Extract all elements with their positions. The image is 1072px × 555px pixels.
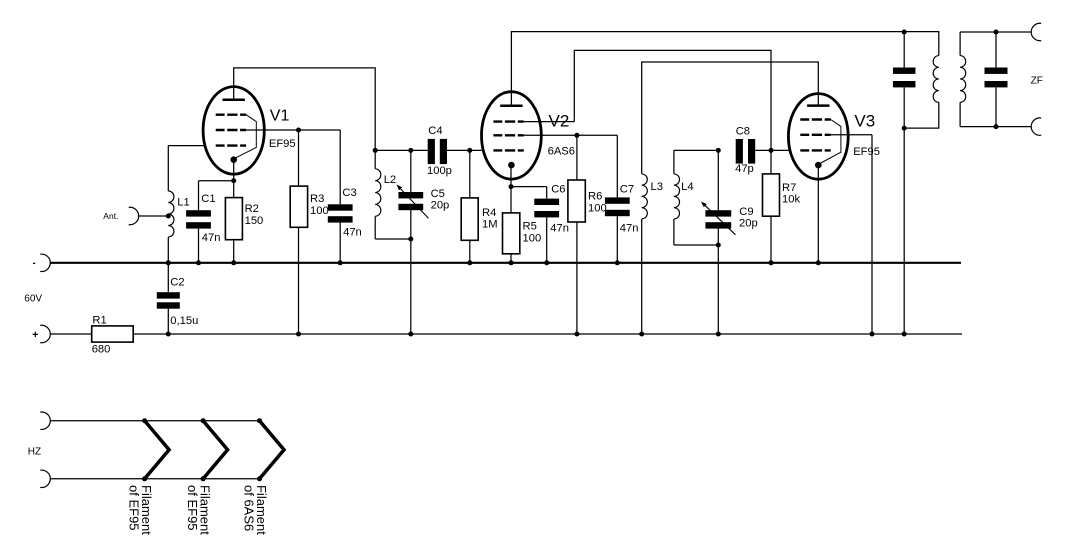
capacitor C4 — [428, 139, 447, 164]
wire R7 top lead — [770, 150, 772, 174]
wire C1 top lead — [198, 181, 200, 211]
capacitor C8 — [736, 139, 756, 164]
wire L4 top lead — [673, 150, 675, 174]
junction C9/C8 top — [716, 148, 721, 153]
junction V2 cathode node — [509, 184, 514, 189]
svg-text:HZ: HZ — [28, 447, 41, 458]
svg-text:100: 100 — [523, 233, 542, 245]
svg-text:V2: V2 — [549, 111, 570, 130]
junction L3 - supply bus — [639, 332, 644, 337]
junction C3 - bus — [338, 260, 343, 265]
wire R4 top lead — [469, 150, 471, 198]
filament heater chevron 3 — [260, 421, 285, 479]
wire L2 top lead — [374, 150, 376, 168]
junction filament 3 top — [257, 418, 262, 423]
wire C7 bottom lead — [616, 216, 618, 263]
wire L2 bottom to C5 — [375, 238, 411, 240]
svg-text:47n: 47n — [550, 222, 569, 234]
svg-text:C6: C6 — [551, 184, 565, 196]
wire L3 to supply bus — [641, 219, 643, 334]
wire V3 cathode to bus — [817, 165, 819, 263]
svg-text:C2: C2 — [170, 277, 184, 289]
svg-text:20p: 20p — [739, 218, 758, 230]
inductor L3 — [642, 174, 648, 219]
capacitor C7 — [605, 197, 630, 216]
svg-text:47n: 47n — [202, 232, 221, 244]
svg-text:47n: 47n — [343, 227, 362, 239]
V2 anode (plate) — [500, 104, 522, 107]
capacitor C6 — [534, 199, 559, 218]
junction C5 top — [408, 148, 413, 153]
junction tank2 - supply bus — [716, 332, 721, 337]
svg-text:L4: L4 — [681, 181, 693, 193]
label Filament of EF95 (rotated) — [127, 485, 155, 535]
svg-text:V1: V1 — [270, 107, 290, 124]
tube envelope V2 — [482, 92, 542, 179]
svg-text:of EF95: of EF95 — [185, 485, 200, 531]
wire C9 top lead — [717, 150, 719, 210]
junction V3 g2 - supply bus — [870, 332, 875, 337]
svg-text:C9: C9 — [739, 206, 753, 218]
junction C1 - bus — [196, 260, 201, 265]
resistor R3 — [290, 186, 307, 227]
junction R2 - bus — [231, 260, 236, 265]
svg-text:of EF95: of EF95 — [127, 485, 142, 531]
resistor R4 — [461, 198, 478, 240]
label plus sign — [33, 332, 38, 337]
junction C9 bottom — [716, 243, 721, 248]
resistor R2 — [225, 198, 242, 240]
terminal Ant. socket — [129, 207, 139, 224]
junction C8/R7/rail — [769, 148, 774, 153]
junction C4/R4 — [467, 148, 472, 153]
junction R6 - supply bus — [574, 332, 579, 337]
svg-text:47n: 47n — [620, 222, 639, 234]
resistor R5 — [503, 213, 520, 254]
tube envelope V3 — [788, 94, 848, 180]
label Filament of EF95 (rotated) — [185, 485, 213, 535]
wire heater bottom — [51, 478, 260, 480]
wire R6 to supply bus — [576, 222, 578, 334]
V2 grid g1 — [493, 149, 523, 151]
wire L4 bottom lead — [673, 219, 675, 245]
svg-text:R7: R7 — [782, 182, 796, 194]
svg-text:680: 680 — [92, 344, 111, 356]
V3 cathode — [815, 162, 822, 169]
wire C6 bottom lead — [546, 217, 548, 262]
junction R5 - bus — [509, 260, 514, 265]
wire secondary cap top lead — [995, 32, 997, 68]
wire C8 right to V3 g1 — [755, 149, 789, 151]
capacitor primary tuning — [893, 68, 916, 88]
wire R4 bottom lead — [469, 240, 471, 262]
terminal HZ bottom — [40, 470, 50, 487]
wire L2 top to C5/C4 — [375, 149, 411, 151]
wire L4 top to C9/C8 — [674, 149, 718, 151]
wire secondary bottom lead — [959, 102, 961, 126]
arrow C5 trimmer — [397, 185, 429, 219]
wire V3 g2 to supply bus — [871, 135, 873, 334]
svg-text:R1: R1 — [92, 314, 106, 326]
wire C9 bottom lead — [717, 228, 719, 245]
junction filament 1 top — [142, 418, 147, 423]
arrow C9 trimmer — [701, 202, 736, 235]
junction primary top — [902, 30, 907, 35]
V1 grid g1 — [216, 144, 246, 146]
tube envelope V1 — [203, 87, 264, 175]
wire tank2 to supply bus — [717, 245, 719, 334]
svg-text:L3: L3 — [651, 181, 663, 193]
wire C3 bottom lead — [339, 223, 341, 263]
resistor R6 — [568, 180, 585, 222]
wire primary cap top lead — [903, 32, 905, 68]
wire bus to C2 — [167, 263, 169, 292]
wire L1 to V1 g1 — [168, 145, 204, 147]
junction secondary cap top — [994, 30, 999, 35]
wire R6 top lead — [576, 135, 578, 180]
wire heater top — [51, 420, 260, 422]
svg-text:R4: R4 — [482, 207, 496, 219]
wire V1 cathode lead — [233, 160, 235, 198]
svg-text:100p: 100p — [427, 165, 452, 177]
wire plus terminal to R1 — [51, 333, 92, 335]
V1 cathode — [230, 156, 237, 163]
transformer primary winding — [933, 56, 939, 103]
svg-text:0,15u: 0,15u — [170, 315, 198, 327]
svg-text:EF95: EF95 — [269, 138, 296, 150]
svg-text:60V: 60V — [24, 294, 42, 305]
wire to C4 left — [411, 149, 428, 151]
wire +60V supply bus — [133, 333, 962, 335]
svg-text:C1: C1 — [201, 193, 215, 205]
wire secondary top to ZF terminal — [960, 31, 1031, 33]
wire V2 anode to transformer primary rail — [511, 32, 904, 106]
transformer secondary winding — [960, 56, 966, 103]
junction R4 - bus — [467, 260, 472, 265]
svg-text:10k: 10k — [782, 194, 800, 206]
capacitor C2 — [157, 292, 180, 308]
wire cathode to C6 — [511, 186, 547, 188]
svg-text:R3: R3 — [310, 193, 324, 205]
wire secondary bottom to ZF terminal — [960, 126, 1031, 128]
wire V2 cathode lead — [510, 165, 512, 213]
junction g2 node — [296, 128, 301, 133]
wire secondary cap bottom lead — [995, 87, 997, 126]
junction filament 2 top — [201, 418, 206, 423]
svg-text:1M: 1M — [482, 219, 498, 231]
wire common negative bus — [51, 262, 962, 264]
svg-text:6AS6: 6AS6 — [548, 145, 575, 157]
V1 grid g3 — [216, 113, 246, 115]
inductor L1 — [168, 191, 174, 237]
wire R5 bottom lead — [510, 254, 512, 263]
wire C4 right to V2 g1 — [447, 149, 482, 151]
capacitor C9 (variable) — [705, 210, 731, 228]
svg-text:Ant.: Ant. — [103, 211, 118, 221]
wire C5 bottom lead — [410, 210, 412, 239]
capacitor C5 (variable) — [398, 192, 423, 210]
junction filament 3 bottom — [257, 476, 262, 481]
junction V1 cathode node — [231, 178, 236, 183]
junction primary bottom — [902, 126, 907, 131]
junction R3 - supply bus — [296, 332, 301, 337]
wire primary bottom — [904, 102, 939, 128]
wire transformer primary top lead — [904, 32, 939, 56]
wire R7 bottom lead — [770, 216, 772, 263]
label Filament of 6AS6 (rotated) — [241, 485, 269, 535]
svg-text:C5: C5 — [431, 188, 445, 200]
wire V2 g3 out — [524, 121, 575, 123]
V3 internal g3-cathode tie — [820, 120, 841, 164]
svg-text:C8: C8 — [736, 125, 750, 137]
junction secondary cap bottom — [994, 124, 999, 129]
wire primary return to supply bus — [903, 128, 905, 334]
V3 anode (plate) — [807, 104, 829, 107]
svg-text:100: 100 — [588, 202, 607, 214]
svg-text:of 6AS6: of 6AS6 — [241, 485, 256, 531]
wire L2 bottom lead — [374, 216, 376, 239]
V1 internal g3-cathode tie — [235, 115, 256, 158]
V1 grid g2 — [216, 129, 246, 131]
wire cathode node to C1 — [199, 180, 234, 182]
wire V2 g2 out — [524, 134, 618, 136]
svg-text:EF95: EF95 — [853, 146, 880, 158]
terminal plus — [40, 325, 50, 342]
wire tank to supply bus — [410, 239, 412, 334]
wire C6 top lead — [546, 187, 548, 199]
wire R2 bottom lead — [233, 240, 235, 263]
capacitor C3 — [328, 204, 353, 222]
wire secondary top lead — [959, 32, 961, 56]
svg-text:R6: R6 — [588, 191, 602, 203]
junction primary - supply bus — [902, 332, 907, 337]
wire L4 bottom to C9 — [674, 244, 718, 246]
svg-text:150: 150 — [245, 215, 264, 227]
junction tank bottom — [408, 237, 413, 242]
terminal minus — [40, 254, 50, 271]
filament heater chevron 1 — [145, 421, 170, 479]
wire primary cap bottom lead — [903, 87, 905, 128]
svg-text:L1: L1 — [177, 197, 189, 209]
wire V3 g2 out — [831, 134, 872, 136]
resistor R1 — [92, 326, 134, 342]
wire R3 to supply bus — [298, 227, 300, 334]
svg-text:C7: C7 — [620, 183, 634, 195]
V2 grid g3 — [493, 120, 523, 122]
wire R3 top lead — [298, 130, 300, 186]
label minus sign — [33, 262, 35, 264]
filament heater chevron 2 — [203, 421, 228, 479]
svg-text:R5: R5 — [523, 221, 537, 233]
V1 anode (plate) — [223, 99, 245, 102]
junction C2 - supply bus — [166, 332, 171, 337]
svg-text:ZF: ZF — [1031, 76, 1043, 87]
resistor R7 — [763, 174, 780, 216]
wire C7 top lead — [616, 135, 618, 198]
svg-text:47p: 47p — [735, 163, 754, 175]
V3 grid g2 — [800, 134, 830, 136]
junction L2 top — [373, 148, 378, 153]
terminal HZ top — [40, 412, 50, 429]
junction filament 1 bottom — [142, 476, 147, 481]
wire antenna tap — [139, 215, 168, 217]
capacitor secondary tuning — [985, 68, 1008, 88]
wire V2 g3 to V3 grid node (feedback rail) — [574, 50, 771, 150]
junction R7 - bus — [769, 260, 774, 265]
wire C5 top lead — [410, 150, 412, 192]
svg-text:100: 100 — [310, 205, 329, 217]
svg-text:L2: L2 — [384, 174, 396, 186]
V3 grid g3 — [800, 118, 830, 120]
capacitor C1 — [186, 210, 211, 228]
node L1 tap junction — [166, 214, 171, 219]
svg-text:C3: C3 — [342, 187, 356, 199]
wire C2 bottom lead — [167, 309, 169, 334]
junction C7 - bus — [615, 260, 620, 265]
wire C3 top lead — [339, 130, 341, 204]
junction C6 - bus — [544, 260, 549, 265]
junction g2/R6 — [574, 133, 579, 138]
wire L3 top to V3 anode — [642, 62, 819, 174]
junction V3 cathode - bus — [816, 260, 821, 265]
wire V1 g2 to R3/C3 — [246, 129, 340, 131]
terminal ZF bottom — [1031, 118, 1041, 135]
svg-text:20p: 20p — [431, 199, 450, 211]
wire L1 bottom lead — [167, 237, 169, 263]
V2 grid g2 — [493, 134, 523, 136]
terminal ZF top — [1031, 23, 1041, 40]
wire C1 bottom lead — [198, 229, 200, 263]
junction tank - supply bus — [408, 332, 413, 337]
svg-text:R2: R2 — [245, 203, 259, 215]
svg-text:V3: V3 — [854, 112, 875, 131]
junction L1 - bus — [166, 260, 171, 265]
svg-text:C4: C4 — [428, 125, 442, 137]
wire V1 anode to L2 top — [234, 68, 376, 150]
V3 grid g1 — [800, 149, 830, 151]
wire L1 top lead — [167, 146, 169, 191]
inductor L2 — [375, 169, 381, 217]
junction filament 2 bottom — [201, 476, 206, 481]
inductor L4 — [674, 174, 680, 219]
V2 cathode — [508, 162, 515, 169]
